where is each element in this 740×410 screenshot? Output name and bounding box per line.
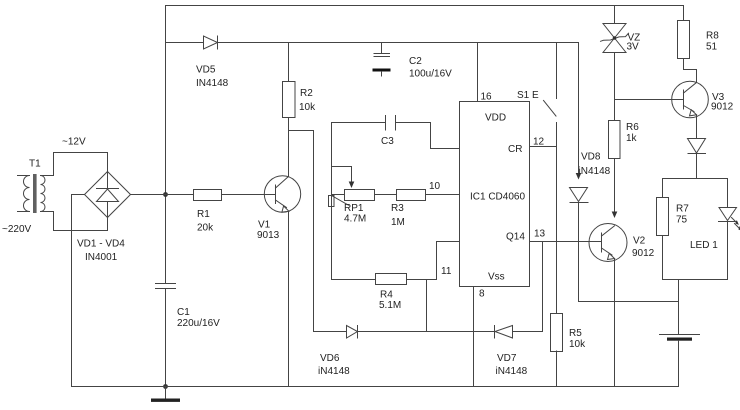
wire IC pin13 row to V2 base (530, 241, 602, 243)
svg-text:Q14: Q14 (506, 232, 525, 243)
resistor R6 (609, 121, 621, 159)
diode under V3 (688, 139, 706, 154)
wire RP1 wiper (332, 167, 352, 183)
svg-text:9012: 9012 (632, 248, 655, 259)
op-amp U1 IC1 CD4060 box (460, 102, 530, 287)
svg-text:V2: V2 (633, 236, 646, 247)
svg-text:VD5: VD5 (196, 65, 216, 76)
wire RC box left vertical (331, 123, 333, 280)
wire battery to ground rail (678, 341, 680, 387)
transistor V1 (264, 176, 300, 212)
transistor V2 (589, 224, 627, 262)
svg-text:1k: 1k (626, 133, 638, 144)
svg-text:8: 8 (479, 289, 485, 300)
arrow wiper (349, 182, 355, 189)
svg-text:1M: 1M (391, 217, 405, 228)
resistor R4 (376, 274, 407, 285)
wire VD6 to VD7 (358, 331, 495, 333)
svg-text:16: 16 (481, 92, 493, 103)
wire collector node to VD6 branch (289, 131, 314, 332)
svg-text:75: 75 (676, 215, 688, 226)
resistor R2 (283, 82, 296, 118)
wire IC pin8 to ground rail (473, 287, 475, 387)
wire R1 to V1 base (222, 194, 276, 196)
svg-text:LED 1: LED 1 (690, 240, 718, 251)
arrow into VD8 (576, 173, 582, 180)
svg-text:CR: CR (508, 144, 522, 155)
svg-text:R3: R3 (391, 203, 404, 214)
svg-text:13: 13 (534, 229, 546, 240)
wire VDD secondary rail y42 (166, 42, 579, 44)
node junction dot DC+ (163, 192, 168, 197)
wire RP1 to R3 (375, 194, 397, 196)
wire IC pin16 drop (477, 43, 479, 102)
svg-text:IC1 CD4060: IC1 CD4060 (470, 192, 525, 203)
svg-text:R5: R5 (569, 328, 582, 339)
svg-text:51: 51 (706, 42, 718, 53)
svg-text:VD6: VD6 (320, 353, 340, 364)
svg-text:4.7M: 4.7M (344, 214, 366, 225)
wire box bottom to battery (678, 280, 680, 335)
svg-text:9012: 9012 (711, 102, 734, 113)
transistor V3 (672, 81, 709, 118)
wire VZ drop from top rail (614, 6, 616, 24)
capacitor C3 (386, 116, 396, 131)
wire VD7 to pin13 node (513, 242, 543, 332)
wire R7 branch bottom (662, 236, 664, 280)
wire switch to pin12 and R5 (556, 123, 558, 314)
wire bridge plus to R1 (131, 194, 194, 196)
wire LED box bottom (663, 279, 728, 281)
wire R8 drop from top rail (683, 6, 685, 21)
svg-text:T1: T1 (29, 159, 41, 170)
potentiometer RP1 (329, 190, 375, 207)
resistor R3 (397, 190, 426, 201)
diode VD5 (204, 36, 218, 49)
diode VD6 (347, 326, 358, 339)
svg-text:Vss: Vss (488, 272, 505, 283)
svg-text:C2: C2 (409, 56, 422, 67)
zener VZ bidirectional (601, 24, 629, 53)
svg-text:12: 12 (533, 137, 545, 148)
svg-text:iN4148: iN4148 (318, 366, 350, 377)
wire R6 to V2 emitter (614, 159, 616, 213)
bridge rectifier VD1-VD4 (85, 172, 131, 218)
svg-text:VDD: VDD (485, 113, 506, 124)
resistor R1 (194, 190, 222, 201)
battery GB (660, 335, 700, 341)
diode VD7 (495, 326, 513, 339)
svg-text:R8: R8 (706, 31, 719, 42)
wire R3 to IC pin10 (426, 194, 460, 196)
svg-text:R6: R6 (626, 122, 639, 133)
wire LED branch top (727, 179, 729, 208)
wire VD8 cathode down to node (578, 203, 580, 302)
svg-text:R1: R1 (197, 209, 210, 220)
wire diode to LED box (696, 154, 698, 179)
capacitor C1 (156, 284, 176, 289)
capacitor C2 (373, 43, 391, 77)
svg-text:VD1 - VD4: VD1 - VD4 (77, 239, 125, 250)
svg-text:R7: R7 (676, 204, 689, 215)
svg-text:100u/16V: 100u/16V (409, 69, 452, 80)
svg-text:S1 E: S1 E (517, 90, 539, 101)
switch S1 (544, 43, 557, 117)
wire bridge minus to ground rail (72, 195, 85, 387)
wire secondary bottom to bridge (41, 212, 108, 231)
ground (151, 387, 180, 402)
wire R5 to ground rail (556, 351, 558, 387)
wire VZ node to V3 base (615, 99, 684, 101)
wire R2 drop from VDD (288, 43, 290, 82)
svg-text:20k: 20k (197, 223, 214, 234)
diode VD8 (570, 188, 589, 203)
svg-text:iN4148: iN4148 (579, 166, 611, 177)
LED LED1 (719, 208, 740, 231)
wire VD6 row (314, 331, 347, 333)
wire bottom ground rail (72, 386, 679, 388)
resistor R5 (551, 314, 563, 352)
resistor R7 (657, 198, 669, 236)
wire left DC+ vertical (165, 6, 167, 284)
svg-text:C1: C1 (177, 307, 190, 318)
wire R7 branch top (662, 179, 664, 198)
resistor R8 (678, 21, 690, 59)
svg-text:C3: C3 (381, 136, 394, 147)
svg-text:VD7: VD7 (497, 353, 517, 364)
svg-text:~12V: ~12V (62, 137, 86, 148)
wire node row y302 (579, 301, 679, 303)
svg-text:R2: R2 (300, 88, 313, 99)
svg-text:iN4148: iN4148 (496, 366, 528, 377)
svg-text:~220V: ~220V (2, 224, 32, 235)
arrow into V2 (612, 212, 618, 219)
svg-text:3V: 3V (627, 42, 640, 53)
svg-text:11: 11 (441, 266, 452, 277)
wire top VDD rail (166, 5, 684, 7)
svg-text:VD8: VD8 (581, 152, 601, 163)
wire R4 to IC pin11 (407, 242, 460, 280)
wire pin12 stub (530, 146, 557, 148)
wire V1 emitter to ground rail (288, 212, 290, 387)
svg-text:5.1M: 5.1M (379, 300, 401, 311)
wire V3 emitter to diode (696, 115, 698, 139)
svg-text:10k: 10k (299, 102, 316, 113)
node junction dot ground (163, 384, 168, 389)
svg-text:9013: 9013 (257, 230, 280, 241)
svg-text:V1: V1 (258, 220, 271, 231)
wire C3 row (332, 122, 386, 124)
svg-text:IN4148: IN4148 (196, 78, 229, 89)
svg-text:R4: R4 (380, 290, 393, 301)
transformer T1 (18, 174, 46, 213)
wire secondary top to bridge (41, 153, 108, 176)
wire V1 collector to R2 (288, 131, 290, 177)
wire VZ to R6 (614, 53, 616, 121)
wire V2 collector to ground rail (614, 259, 616, 387)
svg-text:220u/16V: 220u/16V (177, 318, 220, 329)
svg-text:IN4001: IN4001 (85, 252, 118, 263)
svg-text:10: 10 (429, 181, 441, 192)
wire R4 node down to VD6 row (426, 280, 428, 332)
wire LED branch bottom (727, 222, 729, 280)
wire R8 to V3 collector (684, 59, 697, 83)
wire VD8 branch from VDD (578, 43, 580, 175)
svg-text:10k: 10k (569, 339, 586, 350)
wire RC box bottom row (332, 279, 376, 281)
wire LED box top (663, 178, 728, 180)
svg-text:RP1: RP1 (344, 203, 364, 214)
